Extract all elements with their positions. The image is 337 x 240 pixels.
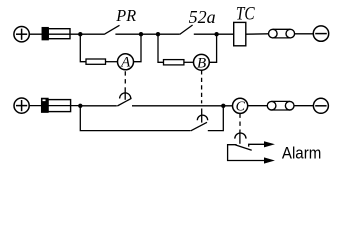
wire <box>184 61 194 63</box>
wire <box>115 33 158 35</box>
fuse F2 <box>42 98 71 112</box>
wire <box>194 33 234 35</box>
svg-text:PR: PR <box>115 6 136 25</box>
mech link dashed from C <box>239 114 241 131</box>
contact C link <box>239 131 241 144</box>
switch PR <box>104 25 120 34</box>
svg-text:C: C <box>236 100 246 115</box>
node junction A-right <box>139 32 143 36</box>
svg-text:52a: 52a <box>189 7 216 27</box>
terminal minus top <box>313 26 328 41</box>
wire <box>80 33 104 35</box>
contact B (NO) <box>191 109 208 131</box>
svg-text:A: A <box>120 55 131 71</box>
mech link dashed from B <box>201 70 203 103</box>
inductor link bottom <box>267 101 294 110</box>
wire <box>208 106 224 131</box>
arrow lower <box>264 157 275 163</box>
wire <box>158 33 180 35</box>
resistor RB <box>164 60 184 65</box>
terminal minus bottom <box>313 98 328 113</box>
fuse F1 <box>42 28 70 40</box>
node junction bottom-left <box>78 104 82 108</box>
relay coil A <box>118 54 134 70</box>
wire to lower arrow <box>228 145 266 161</box>
svg-text:Alarm: Alarm <box>282 144 321 163</box>
wire lower parallel branch <box>80 106 190 131</box>
wire A-branch right leg <box>134 34 142 62</box>
resistor RA <box>86 59 106 64</box>
wire <box>80 105 117 107</box>
node junction top-left <box>78 32 82 36</box>
contact A (NO) <box>117 87 131 106</box>
wire B-branch left leg <box>158 34 164 62</box>
svg-text:B: B <box>197 55 206 71</box>
mech link dashed from A <box>124 71 126 84</box>
wire <box>295 33 314 35</box>
node junction C-left <box>221 104 225 108</box>
coil TC <box>234 22 246 45</box>
terminal plus bottom <box>14 98 29 113</box>
terminal plus top <box>14 27 29 42</box>
wire <box>294 105 313 107</box>
relay coil B <box>194 54 210 70</box>
wire <box>106 61 118 63</box>
wire <box>29 105 80 107</box>
node junction B-left <box>156 32 160 36</box>
wire A-branch left leg <box>80 34 86 62</box>
arrow upper <box>264 141 275 147</box>
svg-text:TC: TC <box>236 4 255 24</box>
relay coil C <box>233 98 248 113</box>
inductor link top <box>269 29 295 38</box>
wire <box>29 33 80 35</box>
contact C arc <box>235 133 246 139</box>
contact C blade <box>235 145 251 150</box>
contact C right stub <box>249 144 266 146</box>
wire <box>246 33 269 35</box>
wire B-branch right leg <box>209 34 216 62</box>
wire <box>248 105 268 107</box>
wire <box>132 105 233 107</box>
switch 52a <box>180 25 193 34</box>
node junction B-right <box>214 32 218 36</box>
